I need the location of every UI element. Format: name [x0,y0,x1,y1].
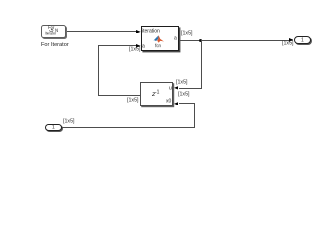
wire: into Delay u input [179,88,202,89]
label z^-1 [152,91,155,98]
arrowhead into Out1 [289,38,294,42]
For Iterator icon loop arrow [49,29,54,32]
wire: x0 vertical up [194,103,195,128]
port label a (output) [174,36,177,41]
wire: junction vertical down [201,40,202,88]
For Iterator icon text "N" [55,29,58,33]
MATLAB Function block U1 [141,26,179,51]
wire: For Iterator output to MATLAB Function input 1 [67,31,138,32]
arrowhead into MATLAB Function input 1 [136,30,141,34]
Out1 port oval [294,36,311,44]
MATLAB logo [153,35,164,43]
wire: into Delay x0 input [179,103,196,104]
signal label [1x5] on fcn output [181,31,192,36]
signal label [1x5] after In1 [63,119,74,124]
wire: In1 to x0 corner [62,127,195,128]
wire: Delay output left [99,95,141,96]
wire: feedback into fcn input a [98,45,136,46]
wire: feedback vertical [98,45,99,95]
For Iterator block [41,25,66,38]
arrowhead into Delay x0 [174,102,179,106]
Unit Delay block z^-1 [140,82,172,106]
port label x0 [166,99,171,104]
signal label [1x5] on u wire [176,80,187,85]
For Iterator icon text "For" [48,26,54,30]
In1 port oval [45,124,62,132]
label fcn [155,44,161,49]
arrowhead into Delay u [174,86,179,90]
Out1 digit 1 [301,38,304,43]
In1 digit 1 [52,125,55,130]
junction dot [199,39,202,42]
signal label [1x5] on x0 wire [178,92,189,97]
arrowhead into fcn a [136,44,141,48]
port label iteration [142,29,160,34]
signal label [1x5] on a wire [129,47,140,52]
wire: MATLAB Function output to Out1 [180,40,290,41]
signal label [1x5] on delay output [127,98,138,103]
signal label [1x5] before Out1 [282,41,293,46]
port label a (input 2) [142,44,145,49]
For Iterator block label [41,42,69,48]
For Iterator icon text "Iterator" [45,32,56,36]
port label u [169,86,172,91]
